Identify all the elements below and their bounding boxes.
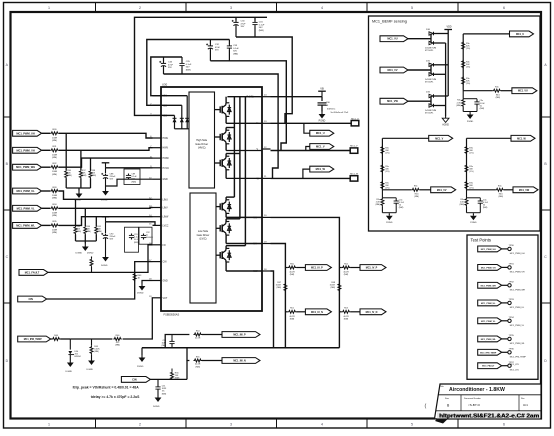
wire HVCC rail [106,167,153,169]
resistor R33 100R series [50,187,59,200]
svg-text:(NM): (NM) [94,351,99,353]
svg-text:TP32: TP32 [509,282,515,284]
title block border [435,384,542,419]
svg-text:(NM): (NM) [456,105,461,107]
svg-text:(NM): (NM) [195,366,200,368]
svg-text:(NM): (NM) [115,345,120,347]
svg-text:HINW: HINW [163,158,170,160]
svg-text:5: 5 [411,6,413,10]
resistor divider 30K [462,60,471,69]
test point TP31 [508,264,525,274]
ground AGND clamp [442,116,449,127]
net tag MC1_VU [512,88,537,94]
svg-text:MC1_V: MC1_V [435,137,443,140]
svg-text:MC1_IPM_TEMP: MC1_IPM_TEMP [24,339,42,341]
wire divider column MC1_W [467,138,512,190]
svg-text:DGND: DGND [76,253,83,255]
capacitor C34 bootstrap electrolytic [159,57,173,74]
test point TP34 [508,317,525,327]
svg-text:MC1_PWM_VL: MC1_PWM_VL [510,325,525,327]
svg-text:MC1_VW: MC1_VW [387,100,398,103]
svg-text:PGND: PGND [470,222,477,224]
net tag MC1_PWM_WH test [478,282,508,288]
svg-text:MC1_PWM_VH: MC1_PWM_VH [481,267,496,269]
svg-text:TP34: TP34 [509,317,515,319]
svg-text:MC1_PWM_WH: MC1_PWM_WH [16,165,35,169]
svg-text:0.1uF: 0.1uF [186,64,192,66]
transistor Q3 high-side IGBT [215,154,240,179]
svg-text:47uF: 47uF [168,64,174,66]
wire temp node [70,338,112,340]
resistor R46 453 series [113,335,122,347]
test points block border [467,235,538,379]
svg-text:(NM): (NM) [290,318,295,320]
svg-text:6: 6 [503,423,505,427]
resistor divider 30K [381,146,390,155]
svg-text:(NM): (NM) [480,108,485,110]
resistor tap series MC1_VV [382,185,430,198]
net tag MC1_PWM_WL test [478,336,508,342]
svg-text:(LVIC): (LVIC) [199,238,206,241]
resistor R43 cin series [133,273,142,281]
svg-text:(1%): (1%) [385,171,390,173]
rev field [519,395,528,411]
svg-text:MC1_FAULT: MC1_FAULT [482,365,495,368]
svg-text:DGND: DGND [153,406,160,408]
net tag MC1_VV [380,67,431,73]
resistor R36 10K pulldown [65,133,72,188]
svg-text:MC1_VV: MC1_VV [437,189,447,192]
test point TP33 [508,299,525,309]
note delay formula [91,395,140,399]
wire NV down rail [271,244,286,348]
wire V phase inside IPM [226,150,262,152]
svg-text:Test Points: Test Points [471,238,491,243]
ground DGND lvic gnd pin [137,281,153,295]
svg-text:MC1_PWM_VH: MC1_PWM_VH [16,148,34,152]
net tag MC1_U [510,31,534,37]
svg-text:MC1_W: MC1_W [350,174,359,176]
svg-text:MC1_W: MC1_W [517,137,526,140]
svg-text:MC1_PWM_UH: MC1_PWM_UH [510,253,525,255]
diode D32 dual clamp [425,92,448,115]
IC right pin stubs and labels [247,95,271,273]
svg-text:FSB50550AS: FSB50550AS [164,313,180,317]
wire NU down rail [271,217,340,347]
svg-text:MC1_PWM_VH: MC1_PWM_VH [510,272,525,274]
svg-text:0.1uF: 0.1uF [259,24,265,26]
power symbol VBB [318,87,326,97]
svg-text:35V: 35V [241,26,245,28]
svg-text:MC1_PWM_WL: MC1_PWM_WL [481,339,497,341]
resistor R41 10K pulldown [95,217,102,241]
wire PGND bottom rail [142,347,339,349]
net tag MC1_IPM_TEMP [18,336,51,342]
svg-text:CIN: CIN [28,297,33,301]
svg-text:(1%): (1%) [469,153,474,155]
net tag MC1_IU_P [305,265,331,271]
wire CIN rc row [150,361,187,380]
svg-text:35V: 35V [215,50,219,52]
svg-text:VB: VB [320,87,324,91]
resistor R52 sense series [339,263,360,276]
net tag MC1_PWM_VH test [478,265,508,271]
svg-text:MC1_IW_N: MC1_IW_N [233,360,246,363]
transistor Q2 high-side IGBT [215,128,235,151]
svg-text:4C1: 4C1 [523,403,528,407]
svg-text:MC1_PWM_WL: MC1_PWM_WL [510,343,526,345]
title block corner wedge [435,419,448,424]
svg-text:630VDC: 630VDC [327,109,336,111]
stray mark left of title block [425,404,427,410]
svg-text:R3x: R3x [498,185,502,187]
ground PGND dc bus [319,112,326,123]
svg-text:(NM): (NM) [134,242,139,244]
net tag MC1_IV_N [360,309,386,315]
svg-text:GND: GND [163,179,168,181]
capacitor 4.7nF filter [382,198,404,213]
net tag MC1_IPM_TEMP test [478,349,508,355]
resistor R54 IW_P series [194,330,223,339]
wire P bus inside IPM [227,96,262,98]
node V tag branch [306,147,310,151]
svg-text:(NM): (NM) [399,207,404,209]
svg-text:40.2R: 40.2R [195,338,201,340]
svg-text:(NM): (NM) [162,393,167,395]
wire VB2 bootstrap loop (middle) [147,40,230,106]
svg-text:HINV: HINV [163,148,169,150]
svg-text:MC1_PWM_VL: MC1_PWM_VL [481,321,496,323]
svg-text:CIN: CIN [132,377,137,381]
svg-text:MC1_VU: MC1_VU [518,90,528,93]
svg-text:High Side: High Side [196,139,207,142]
svg-text:2: 2 [139,6,141,10]
resistor R44 temp series [51,335,71,341]
svg-text:MC1_W: MC1_W [316,167,326,171]
svg-text:R3x: R3x [414,185,418,187]
net tag MC1_PWM_UH test [478,246,508,252]
svg-text:VDD: VDD [446,25,451,28]
net tag MC1_FAULT test [478,363,508,369]
svg-text:4: 4 [321,6,323,10]
wire MC1_PWM_WL to IPM [59,217,153,226]
wire MC1_PWM_VL to IPM [59,207,153,210]
net tag MC1_IV_P [360,265,386,271]
svg-text:(: ( [425,404,427,410]
wire IW_P branch [165,335,189,348]
svg-text:MC1_PWM_UL: MC1_PWM_UL [17,189,36,193]
svg-text:MC1_V: MC1_V [350,146,358,148]
capacitor C88 hvcc 220uF [101,168,116,188]
capacitor C31 bootstrap ceramic [252,17,265,37]
capacitor C36 DC bus [318,97,349,114]
svg-text:MC1_PWM_WL: MC1_PWM_WL [16,223,35,227]
svg-text:MC1_PWM_WH: MC1_PWM_WH [510,290,526,292]
svg-text:0.1uF: 0.1uF [233,48,239,50]
resistor R55 IW_N series [194,356,223,368]
svg-text:Low Side: Low Side [198,230,209,233]
net tag MC1_IW_P [222,332,260,338]
wire VOT to temp net [123,298,153,339]
svg-text:DGND: DGND [87,253,94,255]
capacitor C92 boxed NM second [139,227,154,244]
transistor Q1 high-side IGBT [215,97,232,124]
svg-text:TP30: TP30 [509,245,515,247]
svg-text:tdelay >= 4.7k x 470pF = 2.2uS: tdelay >= 4.7k x 470pF = 2.2uS [91,395,140,399]
svg-text:MC1_IPM_TEMP: MC1_IPM_TEMP [510,357,527,359]
wire VB1 bootstrap loop (inner) [151,57,182,96]
svg-text:5: 5 [411,423,413,427]
title text [449,387,505,393]
net tag MC1_PWM_WL input [13,223,51,229]
svg-text:MC1_PWM_WH: MC1_PWM_WH [481,285,497,287]
connector J33 W [350,174,359,182]
wire GND pin to DGND [106,179,153,186]
resistor R50 sense series [285,263,305,276]
svg-text:HINU: HINU [163,138,169,140]
svg-text:MC1_IV_N: MC1_IV_N [366,311,378,314]
svg-text:(HVIC): (HVIC) [198,147,206,150]
svg-text:(NM): (NM) [97,231,102,233]
svg-text:50V: 50V [186,67,190,69]
svg-text:(NM): (NM) [414,196,419,198]
svg-text:(NM): (NM) [52,198,57,200]
net tag MC1_VW [380,98,431,104]
capacitor C33 bootstrap ceramic [227,40,240,61]
net tag CIN [18,296,47,302]
resistor tap series MC1_VW [467,185,514,198]
svg-text:(NM): (NM) [52,232,57,234]
capacitor C89 hvcc 0.1uF boxed NM [124,169,140,185]
net tag MC1_IU_N [305,309,331,315]
wire MC1_PWM_UH to IPM [59,133,153,138]
svg-text:MC1_IPM_TEMP: MC1_IPM_TEMP [480,352,497,354]
svg-text:(NM): (NM) [331,287,336,289]
resistor divider 30K [465,164,474,173]
svg-text:TP36: TP36 [509,349,515,351]
resistor R51 sense series [285,308,305,321]
wire MC1_PWM_UL to IPM [59,191,153,199]
ground DGND zener [66,360,74,373]
resistor R31 100R series [50,146,59,159]
svg-text:MC1_IW_P: MC1_IW_P [233,334,246,337]
document number field [464,397,481,407]
svg-text:6T150PL: 6T150PL [425,113,434,115]
resistor R32 100R series [50,163,59,176]
ground PGND divider [386,213,393,225]
wire AGND clamp rail [445,43,447,116]
transistor Q5 low-side IGBT [216,219,262,244]
bootstrap diodes D1 D2 D3 inside IPM [161,96,189,129]
resistor divider 30K [462,41,471,50]
svg-text:3: 3 [230,423,232,427]
net tag MC1_PWM_UL test [478,300,508,306]
wire CIN to pin [47,262,153,299]
svg-text:Itrip_peak = Vth/Rshunt = 0.48: Itrip_peak = Vth/Rshunt = 0.48/0.01 = 48… [73,385,140,389]
size field [445,395,461,411]
wire pair2 bottom to V jog [210,61,286,151]
net tag MC1_U [310,130,334,136]
wire W rail to low side [226,97,245,246]
svg-text:DGND: DGND [101,265,108,267]
net tag MC1_VU [380,36,431,42]
diode D50 zener [68,339,81,360]
wire NW to PGND rail [271,271,274,348]
net tag MC1_PWM_UL input [13,188,51,194]
zone letters [6,63,548,363]
BEMF block title [372,20,407,24]
high side gate driver block [189,92,215,188]
resistor R40 10K pulldown [84,208,91,241]
resistor divider 30K [465,181,474,190]
test point TP36 [508,349,527,359]
title label [440,385,445,388]
resistor divider 30K [465,146,474,155]
net tag MC1_VW [513,187,538,193]
svg-text:Gate Driver: Gate Driver [195,143,208,146]
net tag MC1_V [310,144,334,150]
resistor R34 100R series [50,204,59,217]
svg-text:(NM): (NM) [277,287,282,289]
svg-text:MC1_PWM_UH: MC1_PWM_UH [481,249,496,251]
connector J32 V [350,146,358,154]
ground DGND temp divider [87,358,95,371]
resistor R53 sense series [339,308,360,321]
svg-text:(NM): (NM) [460,204,465,206]
resistor divider 30K [381,164,390,173]
svg-text:6T150PL: 6T150PL [425,50,434,52]
power symbol VDD lvcc [102,217,110,222]
wire MC1_PWM_VH to IPM [59,148,153,151]
capacitor C32 bootstrap electrolytic [206,40,220,61]
net tag MC1_PWM_VH input [13,147,51,153]
node U tag branch [304,123,310,133]
svg-text:(NM): (NM) [498,196,503,198]
svg-text:PGND: PGND [386,222,393,224]
wire V phase output [271,150,351,152]
svg-text:MC1_VW: MC1_VW [519,189,530,192]
wire divider column MC1_U [463,34,509,91]
net tag MC1_PWM_WH input [13,164,51,170]
resistor R37 10K pulldown [79,150,86,188]
resistor R48 shunt V [330,282,341,291]
resistor R39 10K pulldown [74,199,81,241]
svg-text:MC1_PWM_UL: MC1_PWM_UL [481,303,496,305]
svg-text:(NM): (NM) [52,174,57,176]
wire U phase inside IPM [226,122,262,124]
svg-text:(NM): (NM) [77,231,82,233]
svg-text:<S-B7>0: <S-B7>0 [468,403,480,407]
svg-text:(1%): (1%) [466,67,471,69]
svg-text:MC1_LTD: MC1_LTD [510,364,520,366]
wire LVCC rail [106,222,156,226]
title block rows [436,395,541,411]
svg-text:BZX84: BZX84 [75,356,82,358]
svg-text:DGND: DGND [101,200,108,202]
net tag MC1_IW_N [222,358,260,364]
test point TP37 [508,362,520,372]
capacitor C50 filter [161,335,174,348]
svg-text:(NM): (NM) [290,274,295,276]
svg-text:MC1_IU_P: MC1_IU_P [311,267,323,270]
svg-text:(NM): (NM) [92,175,97,177]
wire W phase output [271,177,351,179]
svg-text:(NM): (NM) [175,378,180,380]
power symbol VDD hvcc [102,163,110,168]
svg-text:(NM): (NM) [52,215,57,217]
svg-text:(NM): (NM) [233,53,238,55]
test points title [471,238,491,243]
svg-text:MC1_V: MC1_V [316,145,325,149]
wire U rail to low side [226,97,234,197]
svg-text:(1%): (1%) [385,153,390,155]
wire pair3 bottom to W jog [164,74,279,178]
wire U phase output [271,122,352,124]
resistor divider 30K [381,181,390,190]
svg-text:LVCC: LVCC [163,225,169,227]
svg-text:FO: FO [163,245,166,247]
resistor R38 10K pulldown [89,158,96,188]
node W tag branch [303,169,310,178]
svg-text:MC1_BEMF sensing: MC1_BEMF sensing [372,20,407,24]
resistor bottom 2K [375,190,383,213]
ground PGND rail [137,348,145,368]
svg-text:GND: GND [163,281,168,283]
svg-text:600V0F: 600V0F [146,237,154,239]
svg-text:47uF: 47uF [241,23,247,25]
transistor Q4 low-side IGBT [216,197,262,217]
svg-text:R3x: R3x [495,86,499,88]
ground DGND hvcc caps [101,188,109,202]
svg-text:(1%): (1%) [466,83,471,85]
IC left pin stubs and labels [149,94,169,300]
svg-text:(NM): (NM) [86,231,91,233]
svg-text:MC1_PWM_UL: MC1_PWM_UL [510,307,525,309]
svg-text:Vr=350v/Iur=0.72uF: Vr=350v/Iur=0.72uF [331,112,349,114]
svg-text:MC1_IU_N: MC1_IU_N [311,311,323,314]
capacitor C90 lvcc 220uF [101,222,116,254]
svg-text:(NM): (NM) [52,157,57,159]
resistor R30 100R series [50,129,59,142]
svg-text:TP33: TP33 [509,299,515,301]
diode D31 dual clamp [425,60,448,83]
test point TP35 [508,335,526,345]
test point TP30 [508,245,525,255]
svg-text:1: 1 [48,6,50,10]
wire MC1_PWM_WH to IPM [59,158,153,167]
zone row dividers left/right [4,117,551,303]
resistor divider 30K [462,76,471,85]
ground DGND cin filter [153,395,161,408]
svg-text:(NM): (NM) [67,175,72,177]
svg-text:MC1_LTD: MC1_LTD [510,369,520,371]
svg-text:35V: 35V [168,67,172,69]
svg-text:U30: U30 [162,83,168,87]
svg-text:PGND: PGND [467,121,474,123]
svg-text:DGND: DGND [66,371,73,373]
wire FAULT to FO pin [48,245,153,273]
net tag MC1_W [511,135,535,141]
ground PGND divider [470,213,477,225]
svg-text:hltprtwwnt.SI&F21.&A2-e.C# 2am: hltprtwwnt.SI&F21.&A2-e.C# 2am [439,414,539,420]
capacitor C91 lvcc 0.1uF boxed NM [125,227,140,252]
svg-text:50V: 50V [233,51,237,53]
net tag MC1_FAULT [19,270,48,276]
svg-text:Airconditioner - 1.8KW: Airconditioner - 1.8KW [449,387,505,393]
svg-text:1: 1 [48,423,50,427]
capacitor 4.7nF filter [467,198,489,213]
net tag MC1_PWM_VL test [478,318,508,324]
